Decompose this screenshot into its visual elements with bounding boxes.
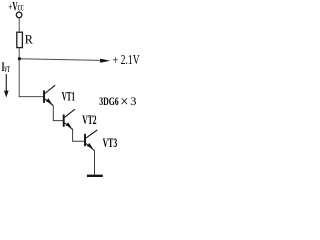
svg-text:CC: CC <box>18 3 24 12</box>
svg-text:3: 3 <box>130 94 136 108</box>
svg-text:×: × <box>120 93 128 110</box>
svg-text:3DG6: 3DG6 <box>99 94 119 108</box>
svg-text:+: + <box>112 53 118 67</box>
svg-text:VT2: VT2 <box>82 112 96 127</box>
svg-text:R: R <box>25 32 33 47</box>
svg-text:2.1V: 2.1V <box>121 52 140 67</box>
svg-text:VT1: VT1 <box>62 89 75 103</box>
svg-text:VT3: VT3 <box>103 136 118 150</box>
svg-text:VT: VT <box>4 64 10 74</box>
